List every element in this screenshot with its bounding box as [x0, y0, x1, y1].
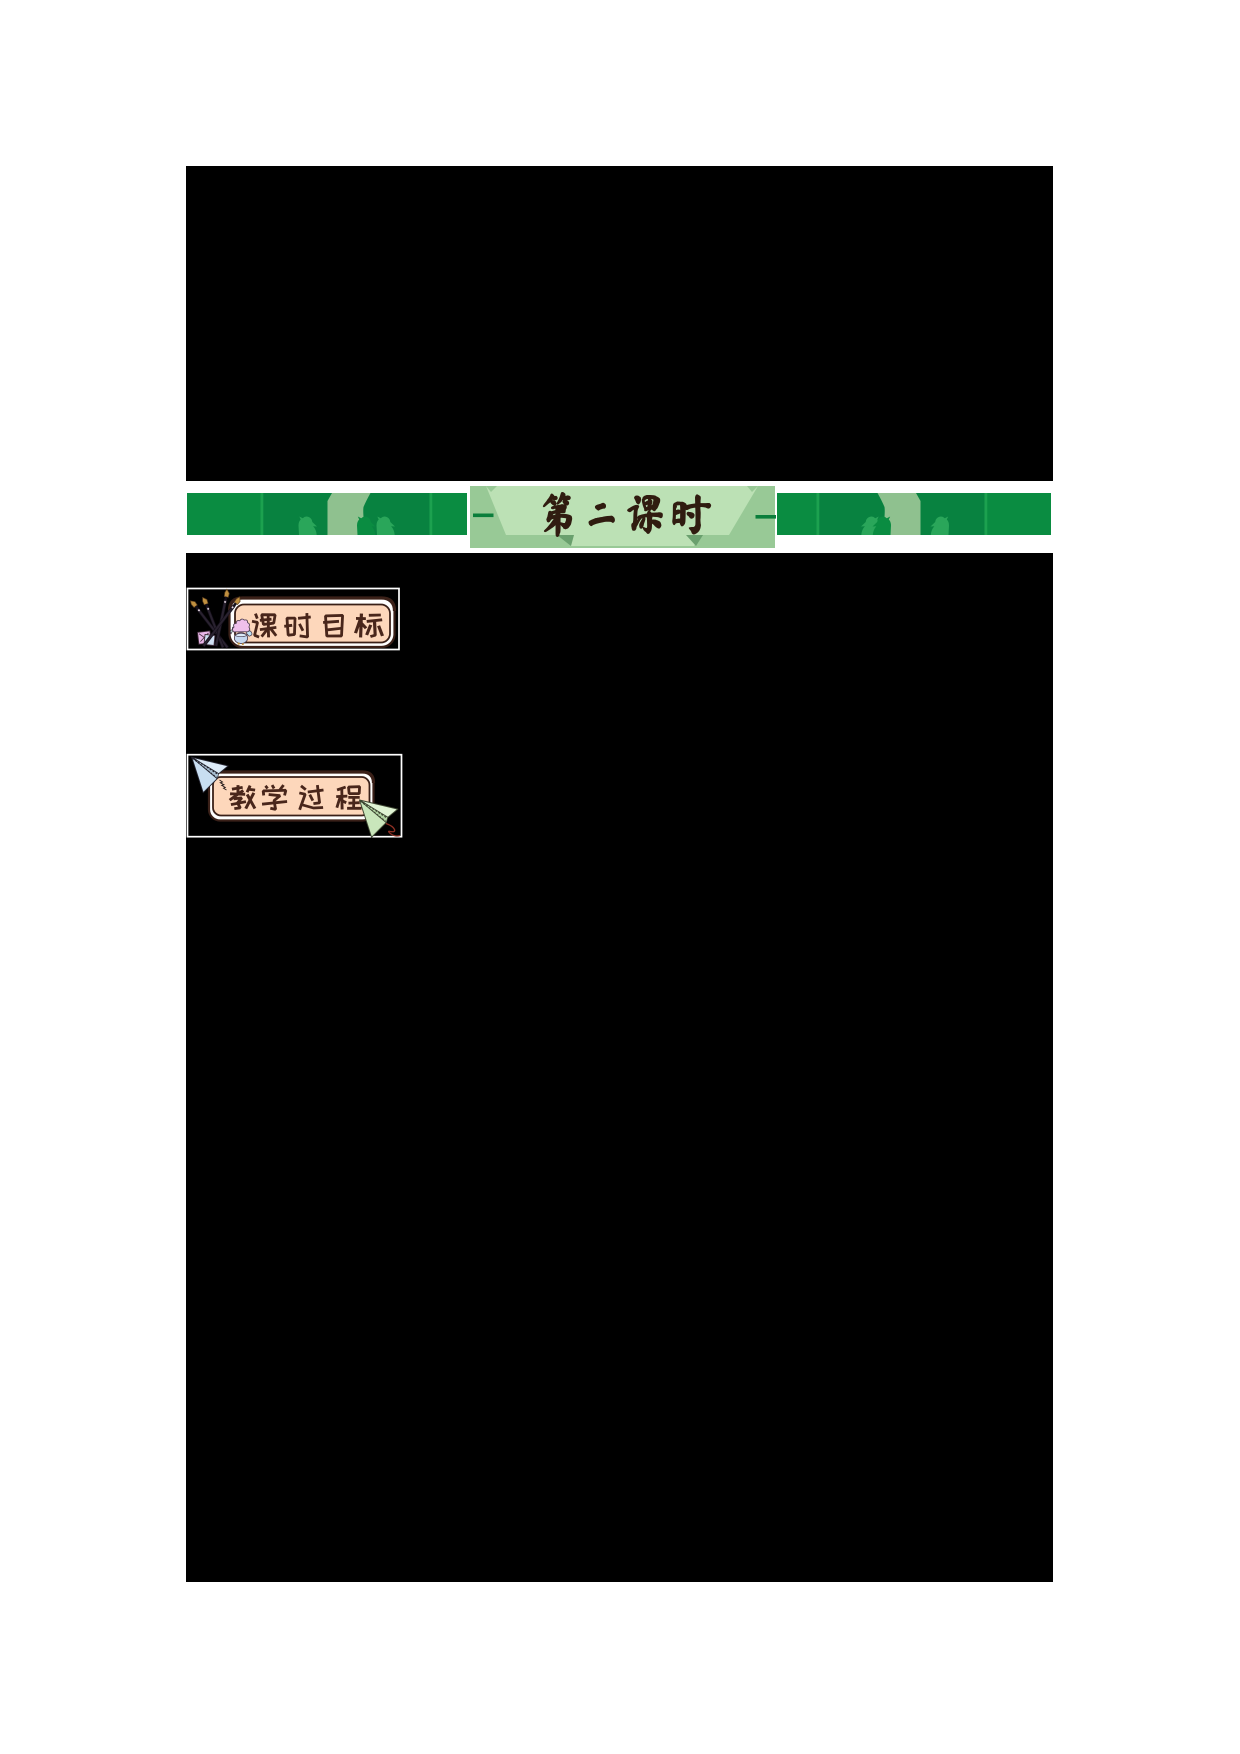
light bird left B: [377, 516, 396, 535]
blue plane squiggle trail: [220, 780, 227, 790]
dark bird on right column: [873, 516, 892, 535]
white strip background: [186, 481, 1053, 553]
dark dash left: [473, 514, 494, 518]
left green band: [187, 493, 467, 535]
blue paper airplane: [192, 757, 229, 793]
light bird right A: [861, 516, 880, 535]
badge1 inner peach rounded rect: [235, 605, 390, 643]
badge2 char 过: [298, 785, 323, 810]
green paper airplane: [360, 800, 398, 837]
band seam left 2: [430, 493, 433, 535]
dark bird on left column: [357, 516, 376, 535]
flower decoration: [230, 619, 252, 645]
banner title char 课: [628, 496, 662, 534]
title box fold notch top-right: [747, 486, 758, 492]
title box fold notch top-left: [486, 486, 497, 492]
badge1 char 标: [354, 614, 384, 638]
band seam right 2: [985, 493, 988, 535]
pink sticky note: [197, 631, 211, 644]
green plane red scribble trail: [386, 824, 400, 837]
sage column left: [328, 493, 371, 535]
title box fold dark right: [686, 535, 703, 546]
badge1 char 目: [323, 614, 344, 637]
light bird left A: [299, 516, 318, 535]
band seam right 1: [817, 493, 820, 535]
badge2 char 程: [336, 785, 362, 810]
badge: teaching process 教学过程: [186, 750, 406, 842]
blue sticky note: [204, 634, 215, 645]
badge2 char 教: [229, 785, 257, 810]
badge: lesson objectives 课时目标: [186, 586, 404, 660]
brush 4: [203, 597, 241, 647]
badge2 char 学: [262, 784, 287, 811]
band seam left 1: [261, 493, 264, 535]
banner title char 第: [544, 493, 572, 536]
banner title char 时: [673, 495, 710, 534]
brush 1: [190, 601, 228, 648]
badge1 white frame: [188, 589, 400, 650]
brush 2: [203, 597, 225, 648]
brush 3: [215, 589, 230, 646]
badge1 char 时: [284, 613, 311, 638]
badge1 outer white rounded rect: [230, 598, 395, 647]
badge1 char 课: [252, 613, 278, 638]
right green band: [777, 493, 1051, 535]
badge2 top thick brown edge: [209, 772, 374, 783]
sage column right: [878, 493, 921, 535]
badge2 outer white rounded rect: [209, 772, 374, 821]
title box: sage base: [470, 486, 775, 548]
badge2 white frame: [188, 755, 402, 837]
badge1 top thick brown edge: [230, 598, 395, 611]
title box fold dark left: [557, 535, 574, 546]
black content area of document page: [186, 166, 1053, 1582]
banner title char 二: [589, 503, 614, 525]
dark dash right: [756, 515, 777, 519]
badge2 inner peach rounded rect: [213, 777, 370, 816]
banner: green ribbon strip with title box: [186, 481, 1053, 553]
light bird right B: [931, 516, 950, 535]
title box: light panel: [486, 486, 758, 546]
